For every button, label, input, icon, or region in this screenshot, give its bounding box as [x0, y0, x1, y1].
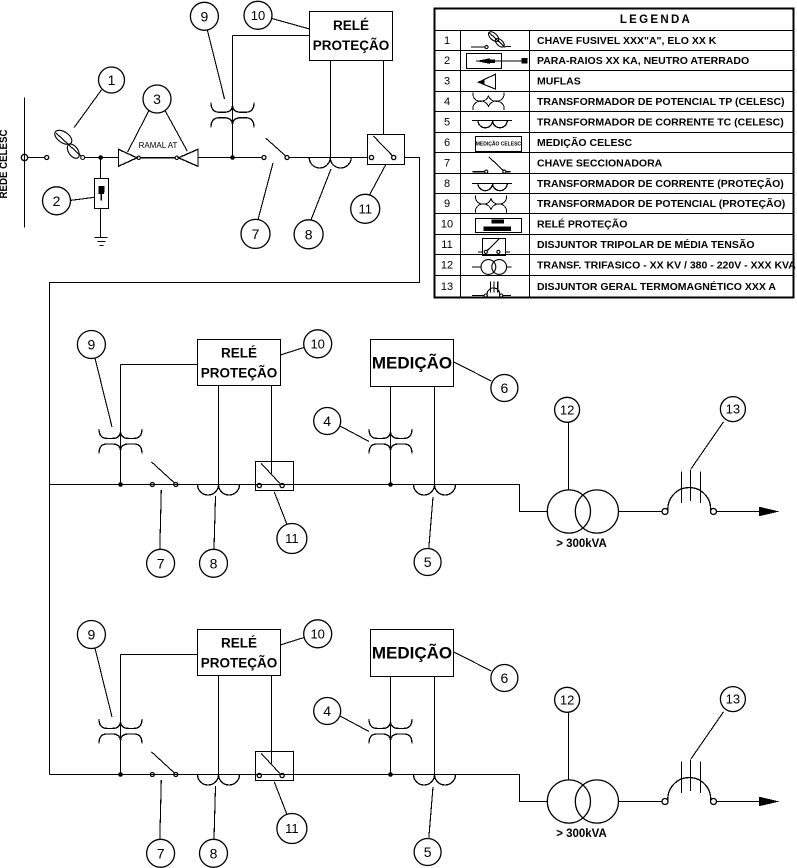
svg-text:TRANSFORMADOR DE POTENCIAL (PR: TRANSFORMADOR DE POTENCIAL (PROTEÇÃO) — [537, 197, 785, 210]
leader 2 — [71, 197, 95, 200]
leader 9 — [95, 358, 112, 427]
disjuntor geral 13 — [668, 470, 711, 512]
wire ct to rele box — [330, 61, 332, 158]
wire rele box to tp vertical — [233, 35, 310, 37]
wire rele box to breaker — [383, 61, 385, 135]
svg-text:13: 13 — [441, 281, 453, 293]
svg-text:> 300kVA: > 300kVA — [556, 538, 607, 550]
svg-text:4: 4 — [323, 413, 331, 429]
leader 5 — [429, 497, 433, 548]
wire rede celesc vertical line — [24, 98, 26, 228]
svg-text:PROTEÇÃO: PROTEÇÃO — [313, 38, 390, 53]
svg-text:5: 5 — [424, 554, 432, 570]
chave seccionadora 7 — [150, 462, 178, 487]
svg-text:TRANSFORMADOR DE CORRENTE (PRO: TRANSFORMADOR DE CORRENTE (PROTEÇÃO) — [537, 177, 784, 190]
rele protecao box top — [310, 12, 393, 61]
balloon 10 — [244, 1, 272, 29]
transformador de corrente 8 (protecao) — [309, 158, 351, 169]
node open terminal — [45, 156, 49, 160]
ground — [95, 238, 108, 246]
leader 4 — [340, 426, 369, 442]
rele protecao box — [198, 340, 281, 386]
svg-text:MUFLAS: MUFLAS — [537, 76, 581, 88]
svg-text:DISJUNTOR GERAL TERMOMAGNÉTICO: DISJUNTOR GERAL TERMOMAGNÉTICO XXX A — [537, 280, 776, 293]
legend sym 13 disjuntor geral — [472, 282, 511, 298]
balloon 9 — [77, 331, 105, 359]
balloon 6 — [491, 375, 518, 402]
wire to arrow — [717, 511, 771, 513]
leader 9 — [208, 31, 225, 100]
svg-text:2: 2 — [444, 55, 450, 67]
svg-text:1: 1 — [444, 35, 450, 47]
svg-text:RELÉ PROTEÇÃO: RELÉ PROTEÇÃO — [537, 218, 627, 231]
legend sym 6 medicao celesc box — [476, 137, 522, 152]
legend sym 2 para-raios — [467, 54, 528, 69]
wire between muflas — [140, 157, 175, 159]
svg-text:CHAVE FUSIVEL XXX"A", ELO XX: CHAVE FUSIVEL XXX"A", ELO XX K — [537, 35, 717, 47]
svg-text:10: 10 — [251, 8, 265, 23]
svg-text:1: 1 — [108, 72, 116, 88]
mufla left-pointing triangle — [179, 149, 198, 166]
chave fusivel 1 (fuse cutout) — [52, 127, 84, 160]
leader 8 — [214, 496, 216, 549]
balloon 12 — [555, 397, 580, 422]
transformador trifasico 12 — [547, 490, 618, 533]
leader 13 — [691, 422, 724, 469]
leader 11 — [274, 492, 287, 525]
wire medicao right vertical — [434, 387, 436, 485]
junction node tp9 — [118, 482, 123, 487]
para-raios 2 (surge arrester) — [95, 158, 109, 238]
wire fuse to junction — [85, 157, 119, 159]
wire transformer output — [619, 511, 663, 513]
leader 7 — [160, 490, 162, 549]
leader 3 left — [128, 111, 149, 153]
leader 12 — [568, 422, 570, 490]
leader 6 — [454, 362, 492, 381]
node at mufla tip — [137, 156, 140, 159]
transformador de corrente 5 — [414, 485, 456, 496]
balloon 2 — [43, 187, 71, 215]
legend sym 9 tp protecao — [475, 195, 506, 212]
medicao box — [371, 340, 454, 387]
legend sym 5 tc celesc — [472, 119, 512, 121]
svg-text:5: 5 — [444, 117, 450, 129]
svg-text:4: 4 — [444, 96, 450, 108]
svg-text:9: 9 — [201, 8, 209, 24]
wire tp to rele box — [121, 364, 198, 366]
svg-text:8: 8 — [444, 178, 450, 190]
balloon 1 — [99, 67, 125, 93]
wire switch to ct — [289, 157, 367, 159]
wire mufla to junction 2 — [198, 157, 262, 159]
wire rele to breaker — [271, 386, 273, 474]
svg-text:10: 10 — [310, 336, 324, 351]
svg-text:RELÉ: RELÉ — [333, 18, 369, 33]
svg-text:3: 3 — [444, 76, 450, 88]
leader 7 — [258, 163, 273, 220]
leader 10 — [272, 19, 310, 30]
balloon 5 — [414, 549, 441, 576]
svg-text:6: 6 — [444, 137, 450, 149]
legend sym 7 chave seccionadora — [472, 157, 510, 173]
svg-text:TRANSF. TRIFASICO - XX KV / 38: TRANSF. TRIFASICO - XX KV / 380 - 220V -… — [537, 260, 796, 272]
node output left — [662, 509, 668, 515]
svg-text:8: 8 — [210, 555, 218, 571]
svg-text:9: 9 — [88, 337, 96, 353]
leader 3 right — [165, 111, 187, 152]
svg-text:13: 13 — [726, 402, 740, 417]
svg-text:DISJUNTOR TRIPOLAR DE MÉDIA TE: DISJUNTOR TRIPOLAR DE MÉDIA TENSÃO — [537, 238, 755, 251]
svg-text:REDE CELESC: REDE CELESC — [0, 129, 10, 198]
node terminal on rede celesc — [21, 154, 27, 160]
transformador de potencial 4 — [369, 429, 412, 454]
svg-text:RAMAL AT: RAMAL AT — [139, 141, 178, 150]
balloon 10 — [304, 330, 332, 358]
legend sym 1 chave fusivel — [471, 30, 511, 49]
junction node medicao — [388, 482, 393, 487]
svg-text:3: 3 — [153, 91, 161, 107]
balloon 11 — [277, 524, 307, 554]
svg-text:7: 7 — [157, 555, 165, 571]
balloon 7 — [241, 219, 270, 248]
transformador de corrente 8 — [198, 485, 240, 496]
svg-text:7: 7 — [444, 158, 450, 170]
transformador de potencial 9 (protecao) — [232, 36, 234, 158]
svg-text:TRANSFORMADOR DE CORRENTE TC (: TRANSFORMADOR DE CORRENTE TC (CELESC) — [537, 117, 784, 129]
wire breaker to feeder corner — [50, 158, 420, 775]
balloon 7 — [147, 549, 175, 577]
legend sym 8 tc protecao — [472, 182, 512, 184]
svg-text:11: 11 — [285, 531, 299, 546]
section 3 feeder group (copy of section 2) — [50, 620, 780, 868]
leader 1 — [74, 90, 101, 128]
svg-text:MEDIÇÃO: MEDIÇÃO — [372, 353, 452, 373]
legend sym 10 rele protecao — [476, 219, 522, 233]
junction node 2 — [230, 155, 235, 160]
legend sym 12 transformador trifasico — [472, 260, 512, 275]
svg-text:CHAVE SECCIONADORA: CHAVE SECCIONADORA — [537, 158, 663, 170]
legend sym 4 tp celesc — [473, 93, 504, 110]
svg-text:7: 7 — [252, 226, 260, 242]
svg-text:TRANSFORMADOR DE POTENCIAL TP: TRANSFORMADOR DE POTENCIAL TP (CELESC) — [537, 96, 785, 108]
legend sym 11 disjuntor tripolar — [478, 239, 510, 256]
balloon 3 — [143, 85, 171, 113]
svg-text:RELÉ: RELÉ — [221, 346, 257, 361]
leader 11 — [370, 164, 386, 195]
svg-text:PARA-RAIOS XX KA, NEUTRO ATER: PARA-RAIOS XX KA, NEUTRO ATERRADO — [537, 55, 749, 67]
balloon 9 — [190, 2, 218, 30]
chave seccionadora 7 — [262, 138, 289, 160]
disjuntor tripolar 11 — [256, 462, 294, 491]
svg-text:8: 8 — [305, 226, 313, 242]
svg-text:LEGENDA: LEGENDA — [620, 14, 692, 26]
wire medicao left vertical — [390, 387, 392, 485]
transformador de potencial 9 — [120, 365, 122, 485]
arrow out — [759, 507, 780, 517]
svg-text:9: 9 — [444, 198, 450, 210]
junction node — [98, 155, 103, 160]
balloon 8 — [294, 220, 323, 249]
wire ct8 to rele — [218, 386, 220, 485]
mufla right-pointing triangle — [118, 149, 137, 166]
leader 8 — [311, 169, 331, 220]
svg-text:12: 12 — [560, 402, 574, 417]
legend sym 3 mufla — [479, 74, 496, 89]
balloon 13 — [720, 397, 745, 422]
svg-text:12: 12 — [441, 260, 453, 272]
svg-text:MEDIÇÃO CELESC: MEDIÇÃO CELESC — [476, 141, 522, 148]
wire bus feeder — [50, 485, 548, 512]
wire from rede to fuse gap — [28, 157, 45, 159]
node output right — [711, 509, 717, 515]
svg-text:PROTEÇÃO: PROTEÇÃO — [201, 366, 278, 381]
legend table frame — [435, 9, 794, 298]
balloon 4 — [314, 408, 341, 435]
section 2 feeder group — [50, 330, 780, 578]
node at second mufla tip — [175, 156, 178, 159]
disjuntor tripolar 11 (breaker box) — [368, 135, 405, 165]
balloon 8 — [200, 549, 228, 577]
svg-text:MEDIÇÃO CELESC: MEDIÇÃO CELESC — [537, 136, 633, 149]
svg-text:11: 11 — [441, 239, 452, 251]
svg-text:6: 6 — [501, 380, 509, 396]
leader 10 — [280, 348, 304, 356]
balloon 11 — [351, 194, 380, 223]
svg-text:10: 10 — [441, 219, 453, 231]
svg-text:2: 2 — [53, 193, 61, 209]
svg-text:11: 11 — [358, 201, 372, 216]
